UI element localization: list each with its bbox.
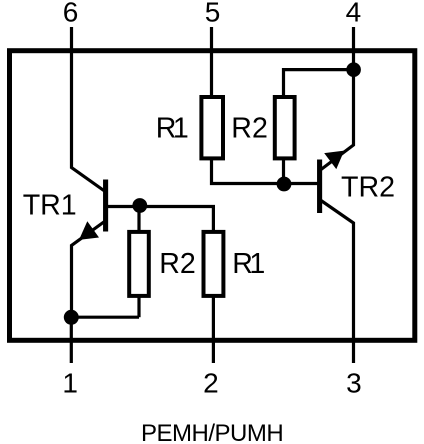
resistor R2 (top) upper lead to pin 4 node — [284, 70, 354, 98]
TR1 base bar — [103, 180, 108, 232]
TR2 emitter wire — [321, 70, 354, 170]
resistor R1 (bottom) — [204, 232, 224, 296]
TR1 emitter wire — [72, 222, 105, 319]
svg-text:1: 1 — [62, 368, 78, 399]
TR1 emitter arrow — [79, 221, 99, 240]
resistor R1 (top) — [201, 97, 223, 158]
wire R1 bottom lead to TR2 base — [212, 157, 320, 184]
junction node pin 1 — [64, 310, 79, 325]
svg-text:R1: R1 — [232, 248, 265, 280]
junction node pin 4 — [346, 62, 361, 77]
svg-text:6: 6 — [63, 0, 79, 27]
svg-text:5: 5 — [205, 0, 221, 27]
type label PEMH/PUMH — [141, 420, 283, 444]
pin 1 lead — [70, 317, 73, 363]
wire pin 1 node to R2 bottom — [71, 316, 139, 319]
TR1 base wire — [106, 207, 213, 232]
pin 5 lead / R1 top lead — [210, 27, 213, 98]
svg-text:3: 3 — [346, 368, 362, 399]
svg-text:TR2: TR2 — [341, 171, 395, 203]
package outline — [10, 51, 415, 341]
pin 2 lead / R1 bottom lead — [212, 295, 215, 363]
svg-text:4: 4 — [346, 0, 362, 27]
resistor R2 (top) lower lead — [282, 157, 285, 184]
resistor R2 (top) — [275, 97, 295, 158]
svg-text:R2: R2 — [231, 113, 268, 145]
junction node TR1 base — [132, 198, 147, 213]
pin 6 lead / TR1 collector wire — [72, 27, 105, 191]
svg-text:2: 2 — [203, 368, 219, 399]
TR2 base bar — [317, 160, 322, 214]
pin 3 lead / TR2 collector wire — [321, 201, 354, 364]
TR2 emitter arrow — [324, 151, 344, 170]
svg-text:PEMH/PUMH: PEMH/PUMH — [141, 420, 283, 444]
junction node TR2 base — [277, 177, 292, 192]
resistor R2 (bottom) upper lead — [137, 206, 140, 233]
svg-text:R1: R1 — [156, 113, 189, 145]
resistor R2 (bottom) lower lead — [137, 295, 140, 317]
svg-text:TR1: TR1 — [23, 189, 77, 221]
pin 4 lead — [352, 27, 355, 70]
svg-text:R2: R2 — [159, 248, 196, 280]
resistor R2 (bottom) — [129, 232, 149, 296]
